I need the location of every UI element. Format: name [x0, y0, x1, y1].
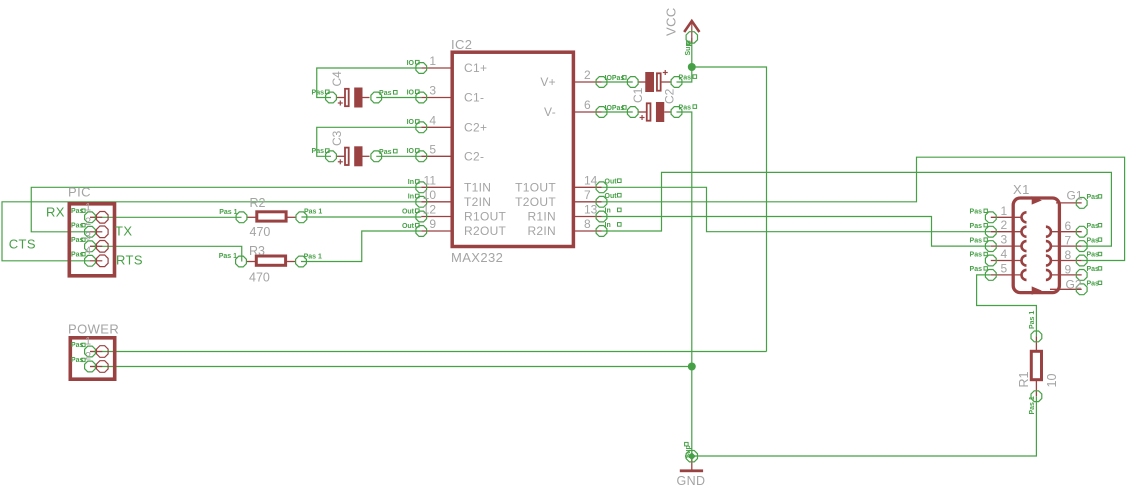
svg-text:9: 9: [1065, 262, 1072, 276]
svg-text:RTS: RTS: [116, 253, 143, 268]
svg-text:Pas 1: Pas 1: [219, 253, 237, 260]
X1 pin 7: [1046, 234, 1102, 252]
power symbol VCC: [664, 7, 700, 55]
svg-text:12: 12: [423, 203, 437, 217]
svg-text:Pas: Pas: [970, 237, 983, 244]
svg-text:Pas: Pas: [970, 223, 983, 230]
X1 pin 1: [970, 204, 1027, 223]
svg-text:In: In: [408, 194, 414, 201]
svg-text:7: 7: [584, 188, 591, 202]
svg-text:Sup: Sup: [685, 445, 692, 458]
svg-text:C1+: C1+: [464, 61, 487, 75]
svg-text:6: 6: [584, 98, 591, 112]
wire R1IN pin13 to X1 pin3: [602, 217, 991, 247]
svg-text:T1OUT: T1OUT: [515, 180, 556, 194]
svg-text:Pas 1: Pas 1: [219, 209, 237, 216]
POWER pin 1: [71, 336, 108, 358]
svg-text:G1: G1: [1067, 189, 1083, 203]
wire R3 right to R2OUT pin9: [301, 231, 421, 262]
PIC pin 2: [71, 216, 108, 238]
X1 shield pin G1: [1056, 189, 1102, 209]
node junction GND / POWER pin2: [688, 363, 696, 371]
resistor R2 470: [219, 196, 322, 239]
IC2 pin 10 T2IN: [408, 188, 491, 209]
PIC pin 1: [71, 201, 108, 223]
svg-text:Pas: Pas: [679, 104, 692, 111]
wire VCC node to POWER pin1 branch: [692, 67, 767, 352]
IC2 pin 9 R2OUT: [402, 217, 507, 238]
svg-text:470: 470: [250, 225, 271, 239]
svg-text:R1IN: R1IN: [527, 210, 556, 224]
svg-text:RX: RX: [46, 204, 65, 219]
svg-text:C2: C2: [662, 88, 676, 104]
svg-text:VCC: VCC: [664, 7, 679, 36]
svg-text:C1-: C1-: [464, 91, 484, 105]
svg-text:IOPas: IOPas: [605, 75, 625, 82]
svg-text:IO: IO: [407, 148, 415, 155]
POWER pin 2: [71, 351, 108, 373]
svg-text:1: 1: [429, 54, 436, 68]
svg-text:Pas: Pas: [1087, 194, 1100, 201]
wire net TX : PIC pin2 to T1IN pin11: [31, 187, 421, 232]
svg-text:Pas: Pas: [970, 209, 983, 216]
svg-text:R2IN: R2IN: [527, 224, 556, 238]
wire GND symbol to R1 bottom: [692, 396, 1037, 456]
svg-text:Pas: Pas: [1087, 237, 1100, 244]
IC2 pin 5 C2-: [407, 142, 485, 163]
wire net RTS : PIC pin4 to T2IN pin10: [2, 202, 421, 261]
svg-text:Out: Out: [605, 178, 618, 185]
svg-text:R1: R1: [1017, 371, 1031, 387]
svg-text:Pas: Pas: [970, 266, 983, 273]
svg-text:3: 3: [1001, 233, 1008, 247]
X1 pin 9: [1046, 262, 1102, 280]
X1 pin 6: [1046, 219, 1102, 237]
svg-text:R2OUT: R2OUT: [464, 224, 507, 238]
svg-text:Pas: Pas: [1087, 252, 1100, 259]
svg-text:8: 8: [584, 217, 591, 231]
svg-text:IOPas: IOPas: [605, 105, 625, 112]
svg-text:POWER: POWER: [68, 322, 119, 337]
svg-text:Pas: Pas: [970, 252, 983, 259]
svg-text:5: 5: [429, 142, 436, 156]
svg-text:V+: V+: [540, 75, 556, 89]
node junction VCC: [688, 63, 696, 71]
wire R2 right to R1OUT pin12: [301, 216, 421, 218]
svg-text:Pas: Pas: [1087, 266, 1100, 273]
X1 pin 8: [1046, 248, 1102, 266]
svg-text:T1IN: T1IN: [464, 180, 491, 194]
svg-text:4: 4: [429, 113, 436, 127]
IC IC2 MAX232 body: [452, 52, 573, 246]
svg-text:PIC: PIC: [68, 185, 91, 200]
connector X1 DB9 shell: [1013, 196, 1059, 295]
wire net C4 right to C1- pin3: [376, 97, 421, 99]
svg-text:2: 2: [1001, 218, 1008, 232]
svg-text:T2OUT: T2OUT: [515, 195, 556, 209]
svg-text:Pas: Pas: [679, 74, 692, 81]
svg-text:MAX232: MAX232: [451, 250, 503, 265]
wire net V- pin6 to C2 left: [602, 111, 633, 113]
capacitor C3: [312, 130, 398, 166]
PIC pin 4: [71, 245, 108, 267]
svg-text:8: 8: [1065, 248, 1072, 262]
svg-text:13: 13: [584, 203, 598, 217]
IC2 pin 6 V-: [544, 98, 626, 119]
wire R1 top to X1 pin5: [977, 275, 1037, 337]
svg-text:Pas 1: Pas 1: [304, 209, 322, 216]
svg-text:G2: G2: [1066, 278, 1082, 292]
svg-text:10: 10: [1045, 374, 1059, 388]
wire POWER pin2 to GND node: [90, 366, 692, 368]
svg-text:Pas 1: Pas 1: [1029, 311, 1036, 329]
wire net N$1 C1+ pin1 to C4 left: [317, 68, 422, 98]
svg-text:1: 1: [85, 336, 91, 348]
capacitor C4: [312, 71, 398, 108]
svg-text:TX: TX: [115, 223, 132, 238]
svg-text:3: 3: [429, 84, 436, 98]
svg-text:6: 6: [1065, 219, 1072, 233]
capacitor C2: [627, 88, 696, 122]
wire POWER pin1 to VCC branch: [90, 351, 767, 353]
svg-text:1: 1: [1001, 204, 1008, 218]
capacitor C1: [627, 70, 696, 103]
svg-text:C1: C1: [631, 87, 645, 103]
wire net C2+ pin4 to C3 left: [317, 127, 422, 156]
X1 shield pin G2: [1050, 278, 1102, 295]
IC2 pin 11 T1IN: [408, 173, 491, 194]
svg-text:Pas: Pas: [379, 90, 392, 97]
svg-text:X1: X1: [1013, 182, 1030, 197]
resistor R3 470: [219, 244, 322, 285]
svg-text:IC2: IC2: [451, 37, 472, 52]
svg-text:Pas 1: Pas 1: [304, 254, 322, 261]
svg-text:Pas: Pas: [1087, 223, 1100, 230]
svg-text:4: 4: [1001, 247, 1008, 261]
wire net C1 right to VCC node: [677, 67, 692, 82]
connector PIC header: [69, 204, 114, 276]
svg-text:C3: C3: [330, 130, 344, 146]
svg-text:2: 2: [85, 351, 91, 363]
IC2 pin 2 V+: [540, 68, 626, 89]
svg-text:1: 1: [85, 201, 91, 213]
wire VCC pad to node: [691, 38, 693, 67]
svg-text:Out: Out: [402, 223, 415, 230]
IC2 pin 8 R2IN: [527, 217, 621, 238]
svg-text:V-: V-: [544, 105, 556, 119]
svg-text:GND: GND: [677, 474, 706, 488]
svg-text:470: 470: [249, 271, 270, 285]
svg-text:Pas: Pas: [1087, 281, 1100, 288]
svg-text:C2-: C2-: [464, 149, 484, 163]
IC2 pin 14 T1OUT: [515, 173, 621, 194]
wire net C3 right to C2- pin5: [376, 155, 421, 157]
ground symbol GND: [677, 442, 706, 488]
svg-text:2: 2: [85, 216, 91, 228]
svg-text:9: 9: [429, 217, 436, 231]
X1 pin 4: [970, 247, 1027, 266]
IC2 pin 4 C2+: [407, 113, 488, 134]
svg-text:In: In: [605, 208, 611, 215]
svg-text:IO: IO: [407, 89, 415, 96]
svg-text:2: 2: [584, 68, 591, 82]
IC2 pin 13 R1IN: [527, 203, 621, 224]
IC2 pin 7 T2OUT: [515, 188, 621, 209]
IC2 pin 12 R1OUT: [402, 203, 507, 224]
IC2 pin 1 C1+: [407, 54, 488, 75]
wire net GND: C2 right down to GND symbol: [677, 112, 692, 456]
resistor R1 10: [1017, 311, 1059, 415]
svg-text:In: In: [605, 222, 611, 229]
svg-text:R1OUT: R1OUT: [464, 210, 507, 224]
X1 pin 3: [970, 233, 1027, 252]
svg-text:Out: Out: [402, 208, 415, 215]
svg-text:Pas 1: Pas 1: [1029, 396, 1036, 414]
svg-text:Pas: Pas: [312, 89, 325, 96]
svg-text:4: 4: [85, 245, 91, 257]
svg-text:C4: C4: [330, 71, 344, 87]
wire T2OUT pin7 to X1 pin8: [602, 157, 1125, 260]
X1 pin 2: [970, 218, 1027, 237]
wire T1OUT pin14 to X1 pin2: [602, 187, 991, 231]
wire R2IN pin8 to X1 pin7: [602, 172, 1112, 246]
svg-text:Pas: Pas: [312, 148, 325, 155]
svg-text:R2: R2: [250, 196, 266, 210]
svg-text:Pas: Pas: [379, 149, 392, 156]
wire net V+ pin2 to C1 left: [602, 81, 633, 83]
svg-text:Out: Out: [605, 193, 618, 200]
svg-text:11: 11: [424, 173, 437, 187]
svg-text:10: 10: [423, 188, 437, 202]
svg-text:C2+: C2+: [464, 120, 487, 134]
IC2 pin 3 C1-: [407, 84, 485, 105]
svg-text:In: In: [408, 179, 414, 186]
wire net RX : PIC pin1 to R2 left: [90, 216, 242, 218]
connector POWER header: [70, 338, 114, 379]
wire net CTS : PIC pin3 to R3 left: [90, 246, 242, 261]
svg-text:14: 14: [584, 173, 598, 187]
PIC pin 3: [71, 230, 108, 252]
svg-text:5: 5: [1001, 261, 1008, 275]
svg-text:IO: IO: [407, 60, 415, 67]
svg-text:7: 7: [1065, 234, 1072, 248]
svg-text:T2IN: T2IN: [464, 195, 491, 209]
svg-text:3: 3: [85, 230, 91, 242]
X1 pin 5: [970, 261, 1027, 280]
svg-text:IO: IO: [407, 119, 415, 126]
svg-text:CTS: CTS: [9, 237, 36, 252]
svg-text:R3: R3: [249, 244, 265, 258]
